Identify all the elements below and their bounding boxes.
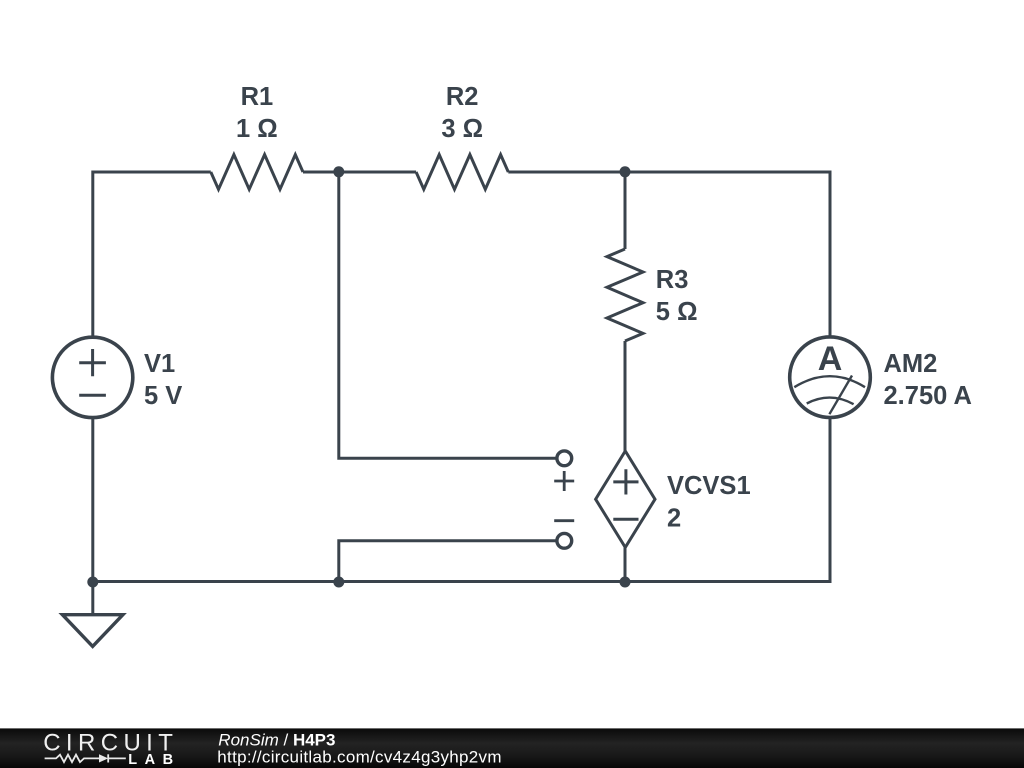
svg-text:AM2: AM2 <box>884 350 938 378</box>
V1 minus sign <box>79 394 106 397</box>
svg-text:R2: R2 <box>446 83 479 111</box>
wire left rail upper <box>91 171 94 339</box>
VCVS control plus sign <box>554 471 574 491</box>
VCVS1 plus sign <box>613 469 638 494</box>
junction node ground <box>87 577 98 588</box>
svg-text:R3: R3 <box>656 266 689 294</box>
ground stem <box>91 582 94 616</box>
junction node bottom mid <box>333 577 344 588</box>
ammeter AM2 body <box>790 337 871 418</box>
wire right rail upper <box>829 171 832 338</box>
junction node VCVS bottom <box>620 577 631 588</box>
ammeter AM2 scale arc small <box>807 398 854 405</box>
CircuitLab logo diode triangle <box>99 754 108 762</box>
svg-text:LAB: LAB <box>128 752 180 768</box>
CircuitLab logo resistor-diode line <box>45 754 126 762</box>
svg-text:RonSim / H4P3: RonSim / H4P3 <box>218 730 335 749</box>
ammeter AM2 scale arc large <box>794 376 865 387</box>
VCVS minus terminal circle <box>557 533 572 548</box>
resistor R1 <box>211 155 303 190</box>
wire VCVS control plus branch <box>339 172 556 458</box>
wire VCVS1 bottom lead <box>624 547 627 581</box>
VCVS1 diamond body <box>596 451 655 547</box>
junction node at R1-R2 top <box>333 166 344 177</box>
svg-text:V1: V1 <box>144 350 175 378</box>
ammeter AM2 needle <box>829 376 852 415</box>
wire bottom rail <box>93 580 830 583</box>
wire R3 top lead <box>624 172 627 249</box>
svg-text:3 Ω: 3 Ω <box>441 115 483 143</box>
svg-text:VCVS1: VCVS1 <box>667 472 751 500</box>
wire VCVS control minus branch <box>339 541 556 582</box>
svg-text:1 Ω: 1 Ω <box>236 115 278 143</box>
VCVS control minus sign <box>554 519 574 522</box>
svg-text:5 Ω: 5 Ω <box>656 298 698 326</box>
voltage source V1 body <box>52 337 132 417</box>
VCVS1 minus sign <box>613 518 638 521</box>
junction node at R3 top <box>620 166 631 177</box>
wire top rail left segment <box>93 171 211 174</box>
svg-text:2.750 A: 2.750 A <box>884 382 972 410</box>
svg-text:R1: R1 <box>241 83 274 111</box>
resistor R2 <box>416 155 508 190</box>
wire top rail right segment <box>508 171 830 174</box>
wire right rail lower <box>829 417 832 583</box>
wire between R1 and R2 <box>303 171 416 174</box>
svg-text:5 V: 5 V <box>144 382 182 410</box>
svg-text:A: A <box>818 340 843 378</box>
resistor R3 <box>607 249 643 341</box>
wire left rail lower <box>91 417 94 582</box>
V1 plus sign <box>79 349 106 376</box>
svg-text:2: 2 <box>667 505 681 533</box>
wire R3 to VCVS1 <box>624 341 627 451</box>
footer bar <box>0 728 1024 768</box>
VCVS plus terminal circle <box>557 451 572 466</box>
svg-text:http://circuitlab.com/cv4z4g3y: http://circuitlab.com/cv4z4g3yhp2vm <box>217 748 502 767</box>
ground triangle <box>62 615 123 647</box>
